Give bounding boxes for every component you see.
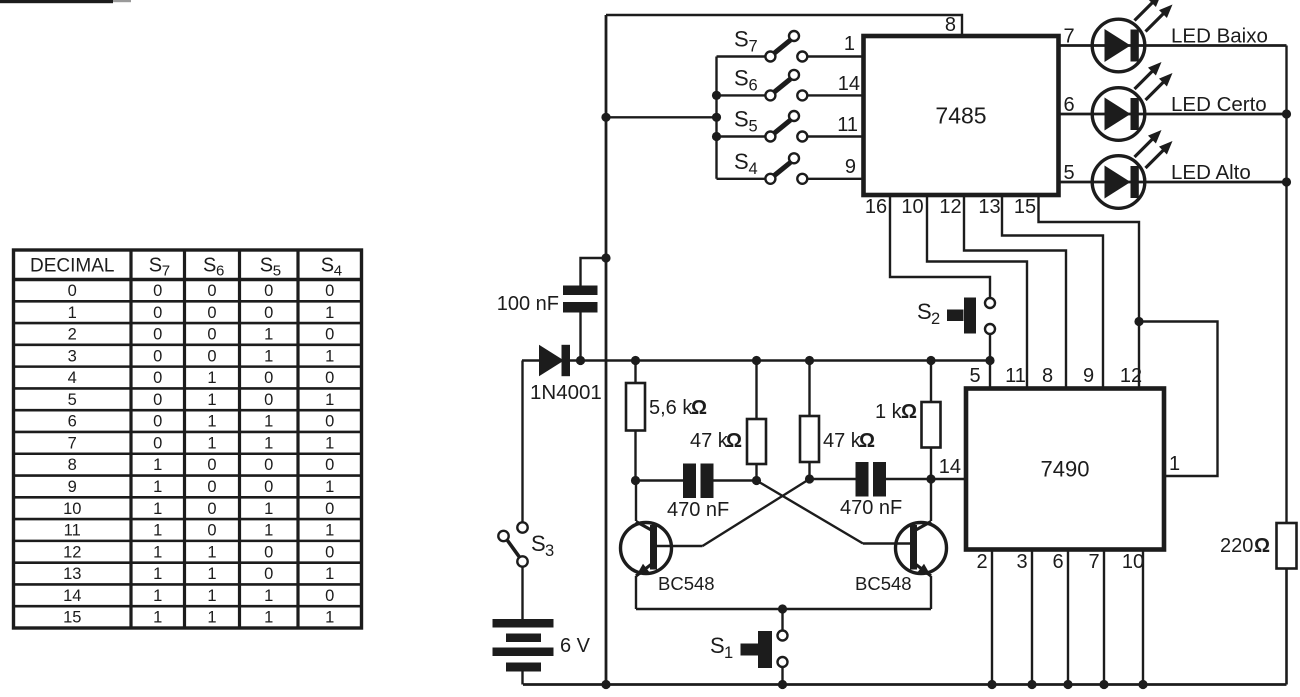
svg-text:10: 10 xyxy=(901,196,923,218)
svg-text:1: 1 xyxy=(325,347,334,365)
svg-text:1 k: 1 k xyxy=(875,401,903,423)
LED Alto (LED Alto) xyxy=(1092,130,1172,208)
switch S4 xyxy=(717,149,864,184)
svg-text:1: 1 xyxy=(153,522,162,540)
svg-text:14: 14 xyxy=(939,456,961,478)
svg-text:0: 0 xyxy=(153,326,162,344)
node pin 10 / bottom rail xyxy=(1138,680,1147,689)
svg-text:10: 10 xyxy=(63,500,81,518)
wire 7490 pin 2 to bottom rail xyxy=(991,550,993,685)
svg-text:2: 2 xyxy=(976,551,987,573)
svg-text:0: 0 xyxy=(264,369,273,387)
svg-text:0: 0 xyxy=(325,369,334,387)
svg-text:1: 1 xyxy=(207,565,216,583)
svg-text:1: 1 xyxy=(325,478,334,496)
svg-text:8: 8 xyxy=(68,456,77,474)
svg-text:1: 1 xyxy=(264,587,273,605)
node left rail / bottom rail junction xyxy=(601,680,610,689)
svg-text:5: 5 xyxy=(969,365,980,387)
svg-text:7490: 7490 xyxy=(1041,457,1090,482)
svg-text:7: 7 xyxy=(1064,26,1075,48)
truth table header row xyxy=(30,255,342,280)
svg-text:47 k: 47 k xyxy=(823,430,862,452)
svg-text:0: 0 xyxy=(153,434,162,452)
truth table grid xyxy=(14,250,362,628)
svg-text:1: 1 xyxy=(325,304,334,322)
svg-text:1: 1 xyxy=(325,391,334,409)
svg-text:0: 0 xyxy=(264,391,273,409)
wire 7490 pin5 lead xyxy=(989,361,991,389)
svg-text:6: 6 xyxy=(1064,94,1075,116)
svg-text:0: 0 xyxy=(207,456,216,474)
svg-text:0: 0 xyxy=(153,413,162,431)
wire switch bus vertical xyxy=(715,57,717,179)
svg-text:5: 5 xyxy=(1064,162,1075,184)
svg-text:Ω: Ω xyxy=(859,430,875,452)
wire S3 to battery xyxy=(521,567,523,619)
wire Q1 emitter vertical xyxy=(635,576,637,609)
svg-text:1: 1 xyxy=(325,434,334,452)
svg-text:Ω: Ω xyxy=(726,430,742,452)
svg-text:9: 9 xyxy=(1083,365,1094,387)
switch S7 xyxy=(717,27,864,62)
svg-text:1: 1 xyxy=(264,522,273,540)
svg-text:1: 1 xyxy=(207,391,216,409)
svg-text:LED Baixo: LED Baixo xyxy=(1171,25,1268,48)
wire diode anode to S3 xyxy=(521,361,523,523)
resistor R5 220 ohm xyxy=(1277,523,1297,569)
svg-text:Ω: Ω xyxy=(901,401,917,423)
svg-text:0: 0 xyxy=(325,326,334,344)
node LED Alto / right rail xyxy=(1282,177,1291,186)
transistor Q1 BC548 xyxy=(621,522,672,577)
svg-text:13: 13 xyxy=(978,196,1000,218)
wire emitter rail xyxy=(636,608,931,610)
wire R3 to C3 xyxy=(810,478,856,480)
wire Q2 base lead xyxy=(863,542,912,544)
resistor R4 1 k ohm xyxy=(875,361,941,480)
svg-text:1: 1 xyxy=(264,500,273,518)
wire Q2 collector vertical xyxy=(930,479,932,521)
svg-text:0: 0 xyxy=(264,543,273,561)
wire 7485 pin16 to switch S2 xyxy=(890,195,990,298)
wire right rail upper (LED Baixo down to resistor) xyxy=(1285,46,1287,524)
node LED Certo / right rail xyxy=(1282,109,1291,118)
node pin 7 / bottom rail xyxy=(1099,680,1108,689)
svg-text:BC548: BC548 xyxy=(855,573,912,594)
svg-text:4: 4 xyxy=(68,369,77,387)
wire branch to 7490 pin1 xyxy=(1139,322,1218,477)
wire Q1 base lead xyxy=(656,545,703,547)
wire 7490 pin 6 to bottom rail xyxy=(1067,550,1069,685)
svg-text:6: 6 xyxy=(68,413,77,431)
svg-text:12: 12 xyxy=(939,196,961,218)
node pin 3 / bottom rail xyxy=(1027,680,1036,689)
svg-text:1: 1 xyxy=(153,500,162,518)
svg-text:12: 12 xyxy=(1120,365,1142,387)
svg-text:100 nF: 100 nF xyxy=(497,293,559,315)
svg-text:15: 15 xyxy=(1014,196,1036,218)
svg-text:DECIMAL: DECIMAL xyxy=(30,256,114,277)
svg-text:12: 12 xyxy=(63,543,81,561)
switch S6 xyxy=(717,65,864,100)
wire 7490 pin 7 to bottom rail xyxy=(1103,550,1105,685)
svg-text:0: 0 xyxy=(207,522,216,540)
svg-text:0: 0 xyxy=(264,565,273,583)
wire 7485 pin 6 to LED Certo xyxy=(1059,113,1287,116)
svg-text:11: 11 xyxy=(837,114,858,136)
svg-text:1: 1 xyxy=(153,565,162,583)
svg-text:1: 1 xyxy=(207,369,216,387)
svg-text:0: 0 xyxy=(153,347,162,365)
wire C3 to Q1 base (diagonal) xyxy=(703,479,810,546)
svg-text:0: 0 xyxy=(68,282,77,300)
resistor R1 5,6 k ohm xyxy=(626,361,707,481)
svg-text:1: 1 xyxy=(207,587,216,605)
svg-text:1: 1 xyxy=(153,456,162,474)
svg-text:0: 0 xyxy=(264,282,273,300)
transistor Q2 BC548 xyxy=(896,522,947,577)
svg-text:47 k: 47 k xyxy=(690,430,729,452)
svg-text:8: 8 xyxy=(945,14,956,36)
IC U1 7485 xyxy=(864,36,1059,195)
svg-text:3: 3 xyxy=(1016,551,1027,573)
svg-text:8: 8 xyxy=(1042,365,1053,387)
svg-text:0: 0 xyxy=(207,326,216,344)
wire 7490 pin 10 to bottom rail xyxy=(1142,550,1144,685)
svg-text:0: 0 xyxy=(207,282,216,300)
svg-text:1: 1 xyxy=(153,587,162,605)
wire Q1 collector vertical xyxy=(635,481,637,522)
resistor R2 47 k ohm xyxy=(690,361,766,481)
svg-text:220: 220 xyxy=(1220,535,1253,557)
svg-text:1: 1 xyxy=(325,565,334,583)
LED Certo (LED Certo) xyxy=(1092,62,1172,140)
svg-text:0: 0 xyxy=(325,543,334,561)
svg-text:14: 14 xyxy=(63,587,81,605)
node pin 2 / bottom rail xyxy=(987,680,996,689)
svg-text:11: 11 xyxy=(64,522,81,540)
svg-text:1: 1 xyxy=(207,543,216,561)
wire top rail (left rail to 7485 pin 8) xyxy=(606,15,962,36)
svg-text:7: 7 xyxy=(68,434,77,452)
svg-text:BC548: BC548 xyxy=(658,573,715,594)
wire 7485 pin10 to 7490 pin11 xyxy=(927,195,1027,389)
capacitor C3 470 nF xyxy=(840,462,966,519)
IC U2 7490 xyxy=(966,389,1164,550)
svg-text:1: 1 xyxy=(207,609,216,627)
wire Q1 collector line xyxy=(636,479,684,481)
truth table data xyxy=(63,282,334,627)
svg-text:0: 0 xyxy=(153,369,162,387)
svg-text:LED Certo: LED Certo xyxy=(1171,93,1267,116)
svg-text:1: 1 xyxy=(207,413,216,431)
node cap top / left rail xyxy=(601,253,610,262)
svg-text:14: 14 xyxy=(838,73,860,95)
svg-text:7: 7 xyxy=(1088,551,1099,573)
svg-text:0: 0 xyxy=(153,304,162,322)
svg-text:6 V: 6 V xyxy=(560,635,591,657)
svg-text:1: 1 xyxy=(153,609,162,627)
capacitor C1 100 nF xyxy=(497,258,606,361)
svg-text:1: 1 xyxy=(153,478,162,496)
svg-text:0: 0 xyxy=(207,478,216,496)
svg-text:15: 15 xyxy=(63,609,81,627)
switch S3 xyxy=(498,522,554,566)
node R3 / C3 junction xyxy=(805,474,814,483)
svg-text:16: 16 xyxy=(865,196,887,218)
svg-text:0: 0 xyxy=(264,478,273,496)
svg-text:1: 1 xyxy=(325,609,334,627)
svg-text:1: 1 xyxy=(1169,453,1180,475)
svg-text:1: 1 xyxy=(844,33,855,55)
node C2 / R2 junction xyxy=(752,476,761,485)
svg-text:0: 0 xyxy=(153,391,162,409)
svg-text:1: 1 xyxy=(264,347,273,365)
svg-text:0: 0 xyxy=(325,282,334,300)
wire C2 to Q2 base (diagonal) xyxy=(757,481,864,544)
wire Q2 emitter vertical xyxy=(930,576,932,609)
svg-text:1: 1 xyxy=(264,434,273,452)
node pin15 line / pin1 branch xyxy=(1134,317,1143,326)
svg-text:0: 0 xyxy=(207,347,216,365)
node Q2 collector / R4 / 7490 pin14 xyxy=(926,474,935,483)
svg-text:Ω: Ω xyxy=(1254,535,1270,557)
svg-text:LED Alto: LED Alto xyxy=(1171,161,1251,184)
wire +V bus xyxy=(568,359,990,361)
node pin 6 / bottom rail xyxy=(1063,680,1072,689)
wire 7485 pin 5 to LED Alto xyxy=(1059,181,1287,184)
switch S2 (pushbutton) xyxy=(917,298,995,361)
node S2 / 7490 pin5 junction xyxy=(985,356,994,365)
svg-text:1N4001: 1N4001 xyxy=(530,381,602,404)
svg-text:13: 13 xyxy=(63,565,81,583)
resistor R3 47 k ohm xyxy=(800,361,875,480)
svg-text:0: 0 xyxy=(264,456,273,474)
svg-text:9: 9 xyxy=(845,156,856,178)
svg-text:5,6 k: 5,6 k xyxy=(649,397,693,419)
capacitor C2 470 nF xyxy=(667,464,757,522)
node emitter rail / S1 xyxy=(778,604,787,613)
svg-text:1: 1 xyxy=(264,326,273,344)
wire 7485 pin 7 to LED Baixo xyxy=(1059,44,1287,47)
node S1 / bottom rail xyxy=(778,680,787,689)
svg-text:1: 1 xyxy=(325,522,334,540)
wire left rail (ground) xyxy=(605,15,608,685)
svg-text:6: 6 xyxy=(1052,551,1063,573)
svg-text:0: 0 xyxy=(325,587,334,605)
svg-text:2: 2 xyxy=(68,326,77,344)
svg-text:0: 0 xyxy=(207,304,216,322)
svg-text:5: 5 xyxy=(68,391,77,409)
svg-text:1: 1 xyxy=(264,413,273,431)
battery B1 6 V xyxy=(493,619,591,685)
wire bottom rail (ground) xyxy=(523,683,1287,686)
svg-text:11: 11 xyxy=(1005,365,1026,387)
svg-text:0: 0 xyxy=(325,456,334,474)
wire right rail lower (resistor to bottom rail) xyxy=(1285,569,1288,685)
diode D1 1N4001 xyxy=(522,345,602,404)
svg-text:7485: 7485 xyxy=(935,103,986,129)
svg-text:470 nF: 470 nF xyxy=(840,497,902,519)
switch S5 xyxy=(717,107,864,142)
scan artifact bar xyxy=(0,0,113,3)
svg-text:1: 1 xyxy=(68,304,77,322)
svg-text:Ω: Ω xyxy=(691,397,707,419)
node cap bottom / diode cathode xyxy=(576,356,585,365)
svg-text:0: 0 xyxy=(325,500,334,518)
wire feed from left rail to switch bus xyxy=(606,116,717,118)
svg-text:10: 10 xyxy=(1122,551,1144,573)
svg-text:0: 0 xyxy=(153,282,162,300)
svg-text:1: 1 xyxy=(207,434,216,452)
svg-text:1: 1 xyxy=(153,543,162,561)
svg-text:0: 0 xyxy=(207,500,216,518)
switch S1 (pushbutton) xyxy=(710,609,788,685)
svg-text:0: 0 xyxy=(325,413,334,431)
wire 7485 pin12 to 7490 pin8 xyxy=(964,195,1066,389)
wire 7485 pin13 to 7490 pin9 xyxy=(1002,195,1103,389)
svg-text:3: 3 xyxy=(68,347,77,365)
wire 7485 pin15 to 7490 pin12 xyxy=(1039,195,1140,389)
svg-text:0: 0 xyxy=(264,304,273,322)
svg-text:1: 1 xyxy=(264,609,273,627)
wire 7490 pin 3 to bottom rail xyxy=(1031,550,1033,685)
LED Baixo (LED Baixo) xyxy=(1092,0,1172,72)
svg-text:470 nF: 470 nF xyxy=(667,499,729,521)
svg-text:9: 9 xyxy=(68,478,77,496)
